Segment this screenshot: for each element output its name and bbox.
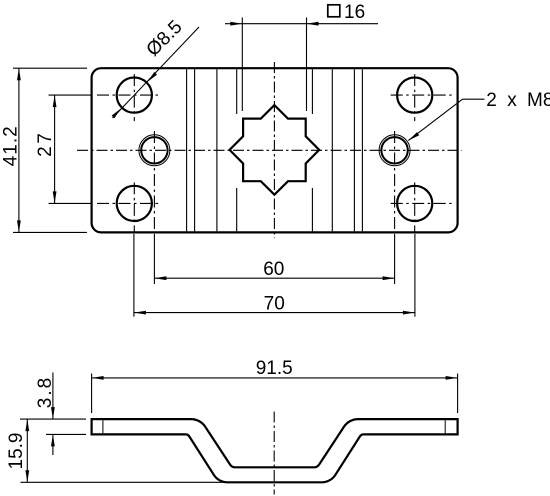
svg-text:15.9: 15.9 (6, 433, 27, 470)
svg-text:M8: M8 (527, 90, 550, 111)
svg-text:x: x (507, 90, 517, 111)
svg-text:27: 27 (35, 131, 56, 157)
svg-text:60: 60 (263, 259, 284, 280)
svg-text:16: 16 (344, 2, 365, 23)
svg-text:91.5: 91.5 (256, 358, 293, 379)
svg-text:Ø8.5: Ø8.5 (143, 17, 187, 61)
svg-text:2: 2 (486, 90, 497, 111)
svg-text:41.2: 41.2 (1, 125, 22, 166)
svg-text:70: 70 (264, 293, 285, 314)
svg-text:3.8: 3.8 (35, 376, 56, 408)
